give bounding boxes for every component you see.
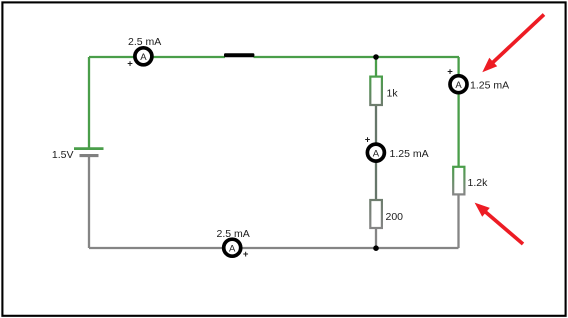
- node junction dot bottom (376,248.5): [373, 245, 379, 251]
- wire left green (battery + to top-left corner): [88, 57, 90, 148]
- ammeter AM2 (right branch) circle: [450, 76, 467, 93]
- wire middle sage (1k bottom through ammeter to 200 top): [375, 105, 377, 200]
- svg-text:1k: 1k: [387, 88, 399, 100]
- wire middle branch green (junction to 1k top): [375, 57, 377, 77]
- wire bottom gray: [89, 247, 459, 249]
- annotation red arrow 1 (points at AM2): [482, 15, 544, 73]
- svg-text:A: A: [229, 243, 236, 254]
- resistor 1k body: [370, 77, 382, 105]
- annotation red arrow 2 (points at 1.2k resistor): [475, 203, 523, 244]
- svg-text:+: +: [447, 66, 453, 77]
- ammeter AM1 (top left) circle: [135, 48, 152, 65]
- svg-text:1.2k: 1.2k: [468, 177, 489, 189]
- wire top right of switch: [254, 56, 460, 58]
- svg-text:+: +: [127, 59, 133, 70]
- node junction dot top (376,57): [373, 54, 379, 60]
- battery V1 1.5V short plate (-): [80, 154, 99, 157]
- svg-text:1.25 mA: 1.25 mA: [470, 80, 509, 92]
- svg-text:200: 200: [386, 211, 404, 223]
- switch SW1 (closed, black bar on top wire): [224, 53, 254, 57]
- svg-text:+: +: [365, 134, 371, 145]
- wire left gray (battery - down to bottom-left corner): [88, 156, 90, 249]
- svg-text:2.5 mA: 2.5 mA: [128, 36, 161, 48]
- svg-text:1.25 mA: 1.25 mA: [390, 148, 429, 160]
- wire right branch green (corner through ammeter to 1.2k top): [457, 57, 459, 167]
- wire middle gray (200 bottom to bottom junction): [375, 228, 377, 248]
- wire top (green, node A): [89, 56, 225, 58]
- svg-text:A: A: [455, 80, 462, 91]
- svg-text:2.5 mA: 2.5 mA: [217, 228, 250, 240]
- resistor 1.2k body: [453, 167, 464, 195]
- battery V1 1.5V long plate (+): [74, 147, 104, 150]
- svg-text:+: +: [243, 249, 249, 260]
- svg-text:A: A: [140, 52, 147, 63]
- svg-text:1.5V: 1.5V: [52, 149, 74, 161]
- ammeter AM4 (bottom) circle: [224, 239, 241, 256]
- wire right gray (1.2k bottom to bottom-right corner): [457, 194, 459, 248]
- resistor 200 body: [370, 200, 382, 228]
- ammeter AM3 (middle branch) circle: [367, 144, 384, 161]
- svg-text:A: A: [373, 148, 380, 159]
